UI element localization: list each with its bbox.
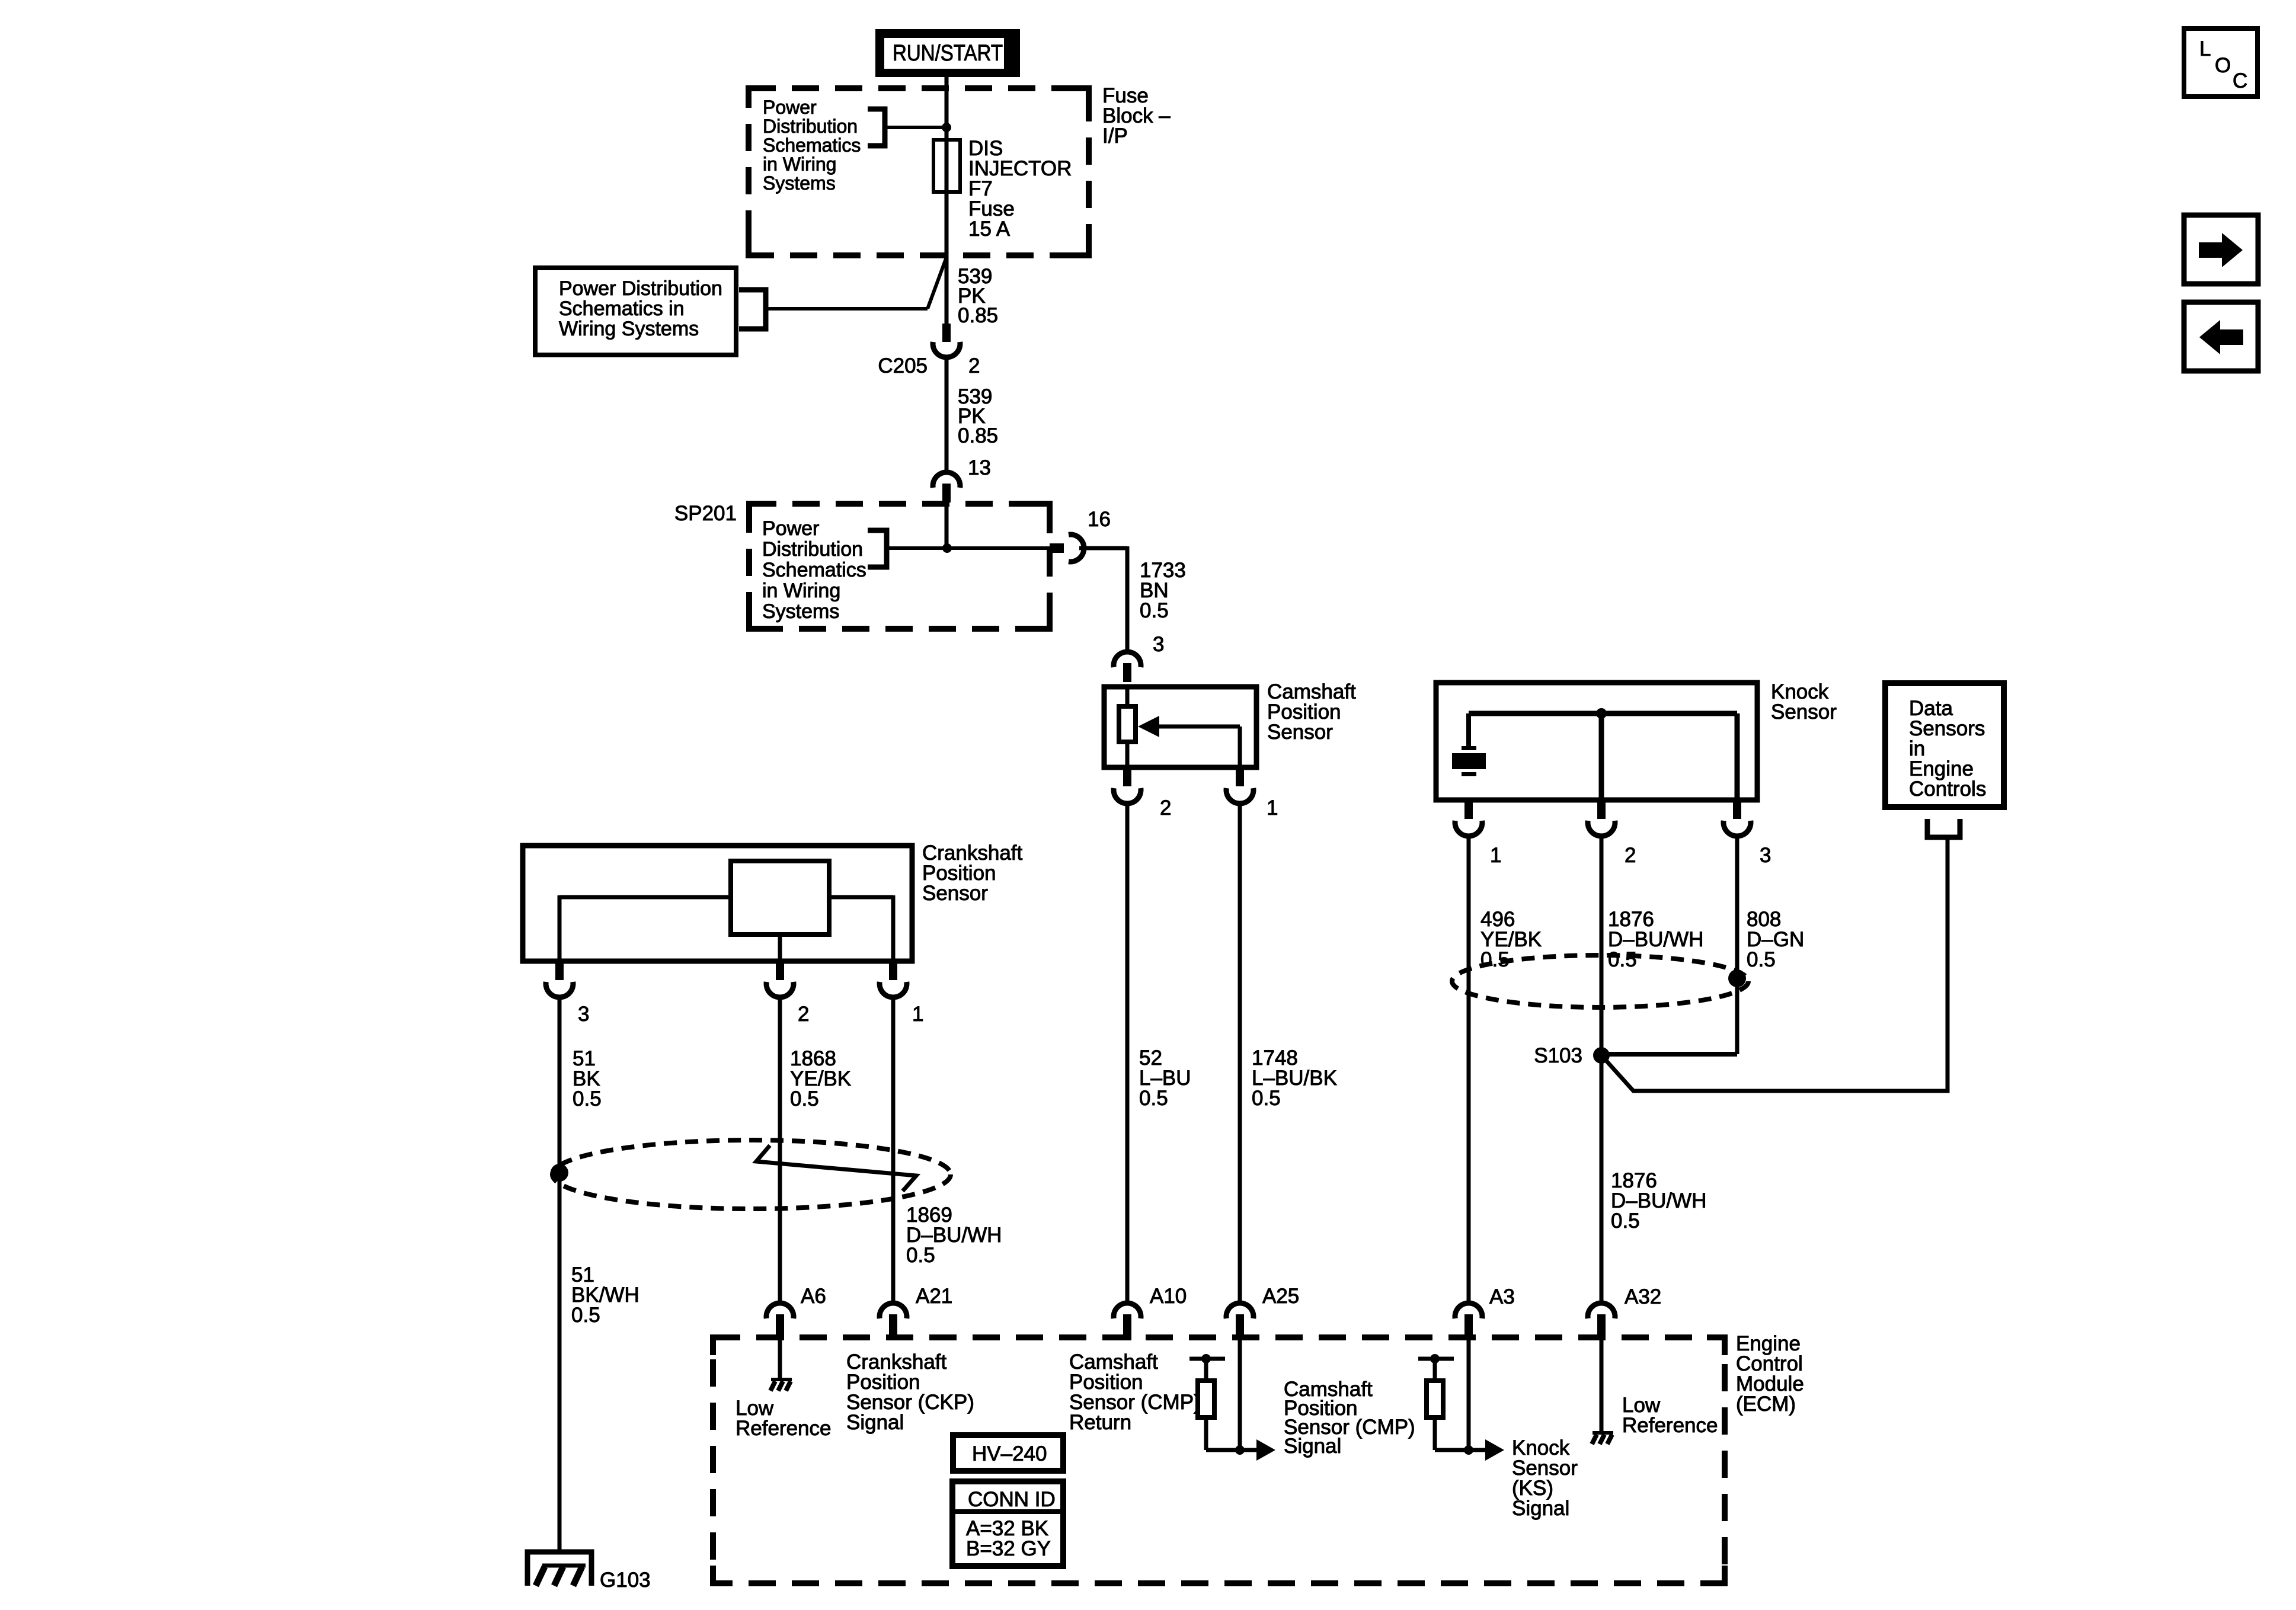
wire knock element feed [1466, 713, 1471, 746]
ground G103 symbol hatches [536, 1566, 586, 1586]
knock piezo element [1452, 746, 1486, 776]
junction knock internal [1596, 708, 1607, 719]
reference box Power Distribution Schematics in Wiring Systems [535, 268, 736, 355]
shield ellipse (CKP harness) [552, 1140, 951, 1209]
power feed box RUN/START [875, 29, 1020, 77]
wire diagonal merge at fuse block exit [928, 257, 946, 309]
connector CMP pin 2 [1114, 765, 1141, 804]
resistor ECM internal (CMP) [1198, 1381, 1214, 1417]
svg-text:3: 3 [578, 1003, 589, 1026]
splice S103 [1593, 1047, 1610, 1064]
svg-text:3: 3 [1153, 633, 1164, 656]
junction feed/note [942, 123, 951, 132]
hyperlink box HV-240 [953, 1435, 1063, 1471]
arrow CMP signal [1240, 1448, 1258, 1452]
arrow KS signal [1469, 1448, 1486, 1452]
connector CMP pin 1 [1226, 765, 1253, 804]
svg-text:2: 2 [1160, 796, 1171, 820]
junction rail to resistor (A25) [1201, 1354, 1211, 1363]
wire 1876 D-BU/WH (knock pin2 to S103) [1600, 838, 1604, 1303]
junction CMP signal node [1235, 1445, 1245, 1455]
arrow CMP internal signal tap [1138, 716, 1159, 737]
wire 808 D-GN (knock pin3) [1735, 838, 1739, 1054]
svg-text:2: 2 [1625, 844, 1636, 867]
wire S103 to data sensors page link [1601, 837, 1948, 1091]
svg-text:G103: G103 [600, 1569, 651, 1592]
svg-text:CONN ID: CONN ID [968, 1488, 1056, 1511]
wire CKP internal right horizontal [829, 895, 893, 900]
connector ECM pin A25 [1226, 1303, 1253, 1340]
LOC nav box [2184, 28, 2257, 97]
wire CMP resistor to pin 2 [1125, 742, 1130, 767]
svg-text:HV–240: HV–240 [972, 1442, 1047, 1465]
nav arrow left box [2184, 302, 2258, 371]
svg-text:A3: A3 [1489, 1285, 1515, 1308]
wire note bracket to main feed [885, 126, 944, 129]
wire knock internal bus [1469, 711, 1737, 716]
wire CKP element to pin 2 [778, 934, 782, 961]
svg-text:EngineControlModule(ECM): EngineControlModule(ECM) [1736, 1332, 1804, 1416]
connector CKP pin 3 [546, 959, 573, 997]
junction KS signal node [1464, 1445, 1473, 1455]
wire rail to resistor (A3) [1433, 1359, 1437, 1381]
svg-text:13: 13 [968, 456, 991, 479]
splice pack SP201 dashed box [749, 504, 1050, 629]
wire CMP pin3 to internal resistor [1125, 684, 1130, 706]
wire C205 to connector 13 [945, 356, 949, 473]
wire resistor node to A3 [1435, 1448, 1469, 1452]
wire CMP arrow to pin 1 [1156, 725, 1240, 729]
svg-text:2: 2 [798, 1003, 809, 1026]
wire knock pin3 internal [1735, 713, 1740, 800]
wire CKP internal right drop to pin 1 [891, 895, 896, 961]
svg-text:KnockSensor: KnockSensor [1771, 680, 1837, 724]
wire rail to resistor (A25) [1204, 1359, 1208, 1381]
connector CKP pin 1 [880, 959, 907, 997]
svg-text:A21: A21 [916, 1285, 952, 1308]
svg-text:1: 1 [1267, 796, 1278, 820]
ground ECM low reference (A6) [770, 1379, 792, 1391]
junction shield drain to 808 wire [1728, 969, 1746, 987]
svg-text:L: L [2199, 37, 2211, 60]
wire 1748 L-BU/BK (CMP pin1 to ECM A25) [1238, 804, 1242, 1303]
wire SP201 note bracket to splice [887, 546, 1050, 550]
connector CKP pin 2 [766, 959, 794, 997]
svg-text:S103: S103 [1534, 1044, 1582, 1067]
camshaft position sensor box [1104, 687, 1256, 767]
bracket of SP201 note [868, 530, 887, 567]
wire resistor node to A25 [1206, 1448, 1240, 1452]
wire A6 to internal ground [778, 1338, 782, 1378]
ground ECM low reference (A32) [1592, 1433, 1613, 1444]
wire CKP internal left horizontal [559, 895, 731, 900]
wire resistor to signal node (A3) [1433, 1417, 1437, 1450]
wire A32 to internal ground [1600, 1338, 1604, 1431]
twisted/shield crossover zigzag (CKP) [756, 1145, 916, 1191]
wire 1869 D-BU/WH (CKP pin1 to ECM A21) [891, 997, 896, 1303]
junction splice SP201 [942, 543, 952, 553]
svg-text:A10: A10 [1150, 1285, 1187, 1308]
wire 52 L-BU (CMP pin2 to ECM A10) [1125, 804, 1130, 1303]
wire 496 YE/BK (knock pin1 to ECM A3) [1467, 838, 1471, 1303]
resistor CMP internal [1119, 706, 1136, 742]
svg-text:A32: A32 [1625, 1285, 1661, 1308]
wire A25 into ECM [1238, 1338, 1242, 1450]
connector knock pin 3 [1723, 798, 1751, 836]
connector knock pin 2 [1588, 798, 1615, 836]
bracket of left reference box [739, 290, 766, 329]
wire resistor to signal node (A25) [1204, 1417, 1208, 1450]
connector ECM pin A10 [1114, 1303, 1141, 1340]
wire knock pin2 internal [1599, 713, 1604, 800]
bracket under data sensors box [1927, 819, 1960, 837]
shield ellipse (knock harness) [1452, 955, 1748, 1007]
svg-text:A25: A25 [1262, 1285, 1299, 1308]
reference box Data Sensors in Engine Controls [1885, 683, 2004, 807]
nav arrow right box [2184, 215, 2258, 284]
connector ECM pin A3 [1455, 1303, 1482, 1340]
connector ECM pin A32 [1588, 1303, 1615, 1340]
svg-text:16: 16 [1088, 508, 1111, 531]
knock sensor box [1436, 683, 1757, 800]
wire left reference box to main feed [766, 307, 928, 311]
wire 13 into SP201 [945, 502, 949, 548]
svg-text:O: O [2215, 54, 2231, 77]
junction rail to resistor (A3) [1430, 1354, 1440, 1363]
crankshaft position sensor box [523, 846, 912, 961]
fuse block I/P dashed box [749, 88, 1089, 255]
junction shield drain to 51 BK wire [551, 1164, 568, 1182]
svg-text:A=32 BKB=32 GY: A=32 BKB=32 GY [966, 1517, 1051, 1560]
CKP sensor element box [731, 861, 829, 934]
connector ECM pin A21 [880, 1303, 907, 1340]
wire CMP pin1 drop [1238, 726, 1242, 767]
wire corner down to connector 3 [1125, 546, 1130, 652]
svg-text:A6: A6 [801, 1285, 826, 1308]
wire 16 to corner [1079, 546, 1127, 550]
svg-text:RUN/START: RUN/START [893, 41, 1003, 66]
connector C205 pin 2 (in-line) [933, 324, 960, 357]
wire 1868 YE/BK (CKP pin2 to ECM A6) [778, 997, 782, 1303]
G103 bracket [527, 1552, 591, 1586]
bracket to power distribution note (fuse block) [868, 109, 885, 146]
connector pin 3 (camshaft position sensor) [1114, 652, 1141, 682]
svg-text:3: 3 [1760, 844, 1771, 867]
svg-text:SP201: SP201 [674, 502, 737, 525]
wire CKP internal left drop to pin 3 [558, 895, 562, 961]
wire A3 into ECM [1467, 1338, 1471, 1450]
connector pin 13 (fuse block C2) [933, 472, 960, 502]
resistor ECM internal (KS) [1427, 1381, 1443, 1417]
wire internal rail bar (A3) [1418, 1357, 1454, 1361]
wire 808 drop to S103 link [1601, 1052, 1737, 1057]
wire internal rail bar (A25) [1189, 1357, 1225, 1361]
connector knock pin 1 [1455, 798, 1482, 836]
wire RUN/START to fuse F7 and connector C205 [945, 75, 949, 325]
CONN ID table [952, 1481, 1063, 1566]
svg-text:1: 1 [1490, 844, 1501, 867]
connector ECM pin A6 [766, 1303, 794, 1340]
connector pin 16 (SP201 output) [1050, 534, 1084, 562]
svg-text:1: 1 [912, 1003, 923, 1026]
fuse F7 DIS INJECTOR 15A [933, 140, 960, 192]
svg-text:C: C [2233, 69, 2247, 92]
svg-text:2: 2 [968, 354, 980, 377]
svg-text:C205: C205 [878, 354, 928, 377]
engine control module ECM dashed box [713, 1337, 1725, 1583]
wire 51 BK (CKP pin3) [558, 997, 562, 1552]
svg-text:KnockSensor(KS)Signal: KnockSensor(KS)Signal [1512, 1436, 1578, 1520]
